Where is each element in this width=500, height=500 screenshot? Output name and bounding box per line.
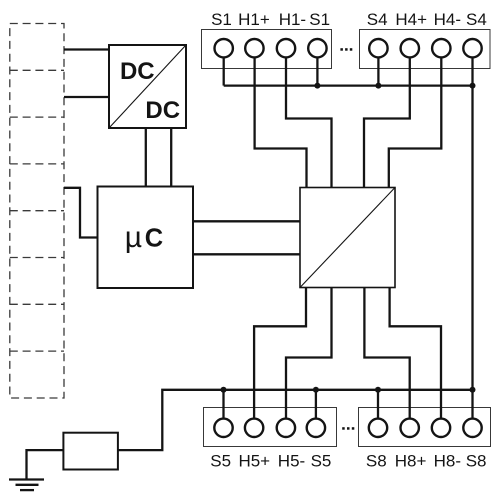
node: junction top bus / S4 xyxy=(375,83,381,89)
wire: S4 terminal down to top bus xyxy=(377,59,379,86)
wire: isolator bottom pin 4 to H8- xyxy=(390,288,441,418)
svg-text:H1-: H1- xyxy=(279,10,306,29)
node: junction bottom bus / S8b xyxy=(470,387,476,393)
terminal circle H4- xyxy=(432,39,450,57)
svg-text:C: C xyxy=(145,225,163,253)
wire: µC to isolator (lower) xyxy=(193,253,300,255)
svg-text:S5: S5 xyxy=(311,452,332,471)
svg-text:H8+: H8+ xyxy=(395,452,427,471)
node: junction top bus / S1b xyxy=(314,83,320,89)
wire: DC/DC to µC (left) xyxy=(145,128,147,187)
terminal circle S1b xyxy=(308,39,326,57)
wire: DC/DC to µC (right) xyxy=(170,128,172,187)
wire: S8b terminal up to bottom bus xyxy=(471,390,473,418)
svg-text:S4: S4 xyxy=(367,10,388,29)
wire: H1- to isolator top pin 2 xyxy=(286,59,332,188)
svg-text:DC: DC xyxy=(120,58,155,85)
terminal circle S4 xyxy=(369,39,387,57)
svg-text:S4: S4 xyxy=(466,10,487,29)
connector X1 (dashed bus connector, 8 segments) xyxy=(10,24,64,399)
wire: bottom S bus with left drop to resistor R1 xyxy=(118,390,473,450)
microcontroller U2 (µC) xyxy=(98,187,194,289)
wire: S4b terminal down through both buses xyxy=(471,59,473,390)
wire: isolator bottom pin 3 to H8+ xyxy=(364,288,409,418)
isolator U3 xyxy=(300,188,395,288)
terminal circle H1- xyxy=(277,39,295,57)
terminal circle H8- xyxy=(432,419,450,437)
node: junction bottom bus / S5b xyxy=(313,387,319,393)
terminal block TB3 (bottom left) xyxy=(204,408,337,447)
terminal circle S8 xyxy=(369,419,387,437)
wire: S1 terminal down to top bus xyxy=(223,59,225,86)
svg-text:DC: DC xyxy=(145,97,180,124)
node: junction bottom bus / S8 xyxy=(375,387,381,393)
terminal block TB2 (top right) xyxy=(360,30,491,69)
ground xyxy=(9,480,44,491)
svg-text:S5: S5 xyxy=(210,452,231,471)
svg-text:µ: µ xyxy=(125,221,142,254)
resistor R1 xyxy=(63,433,118,470)
node: junction bottom bus / S5 xyxy=(221,387,227,393)
svg-text:H1+: H1+ xyxy=(238,10,270,29)
svg-text:S1: S1 xyxy=(211,10,232,29)
terminal circle S5b xyxy=(307,419,325,437)
svg-text:S8: S8 xyxy=(366,452,387,471)
wire: S5 terminal up to bottom bus xyxy=(222,390,224,418)
svg-text:S1: S1 xyxy=(309,10,330,29)
svg-text:H5-: H5- xyxy=(278,452,305,471)
wire: resistor R1 to ground xyxy=(27,450,64,478)
terminal circle H8+ xyxy=(401,419,419,437)
wire: connector X1 to DC/DC input (lower) xyxy=(64,96,109,98)
wire: connector X1 to DC/DC input (upper) xyxy=(64,48,109,50)
terminal circle S1 xyxy=(215,39,233,57)
terminal circle H5+ xyxy=(245,419,263,437)
terminal circle H1+ xyxy=(245,39,263,57)
ellipsis between top terminal blocks xyxy=(340,48,352,51)
wire: isolator bottom pin 1 to H5+ xyxy=(254,288,306,418)
svg-text:H8-: H8- xyxy=(434,452,461,471)
wire: top S bus xyxy=(224,84,473,86)
dc-dc converter U1 xyxy=(109,45,186,128)
wire: connector X1 to microcontroller U2 xyxy=(64,188,98,238)
terminal circle S5 xyxy=(214,419,232,437)
terminal block TB1 (top left) xyxy=(202,30,332,69)
svg-text:H4+: H4+ xyxy=(395,10,427,29)
ellipsis between bottom terminal blocks xyxy=(342,427,354,430)
wire: H1+ to isolator top pin 1 xyxy=(255,59,307,188)
terminal circle H5- xyxy=(277,419,295,437)
wire: µC to isolator (upper) xyxy=(193,220,300,222)
wire: H4- to isolator top pin 4 xyxy=(389,59,442,188)
terminal circle S8b xyxy=(463,419,481,437)
wire: H4+ to isolator top pin 3 xyxy=(364,59,410,188)
svg-text:S8: S8 xyxy=(466,452,487,471)
wire: S8 terminal up to bottom bus xyxy=(377,390,379,418)
svg-text:H4-: H4- xyxy=(434,10,461,29)
wire: S5b terminal up to bottom bus xyxy=(315,390,317,418)
wire: S1b terminal down to top bus xyxy=(316,59,318,86)
svg-text:H5+: H5+ xyxy=(238,452,270,471)
terminal circle S4b xyxy=(463,39,481,57)
terminal block TB4 (bottom right) xyxy=(359,408,491,447)
wire: isolator bottom pin 2 to H5- xyxy=(286,288,332,418)
terminal circle H4+ xyxy=(401,39,419,57)
node: junction top bus / S4b xyxy=(470,83,476,89)
